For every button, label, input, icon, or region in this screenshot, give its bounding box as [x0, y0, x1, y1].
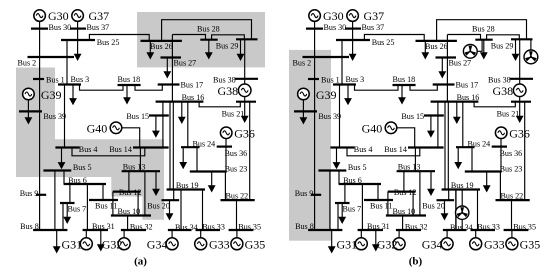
panel (b) shaded strip (buses 2,1,39,9,8)	[289, 50, 331, 241]
wire 19-34 (panel b, redrawn)	[455, 190, 457, 231]
panel (a) network	[18, 9, 266, 254]
wind turbine at bus 28 (panel b)	[477, 40, 482, 52]
panel (a) shaded area 1 (top right, buses 26-29)	[137, 12, 265, 67]
panel (b) network	[293, 9, 541, 254]
svg-text:(a): (a)	[134, 255, 147, 267]
panel (a) shaded area 2 (left/center polygon)	[16, 68, 164, 220]
wind turbine at bus 29 (panel b)	[530, 39, 532, 51]
svg-text:(b): (b)	[409, 255, 423, 267]
wind turbine at bus 34 (panel b)	[461, 190, 463, 231]
